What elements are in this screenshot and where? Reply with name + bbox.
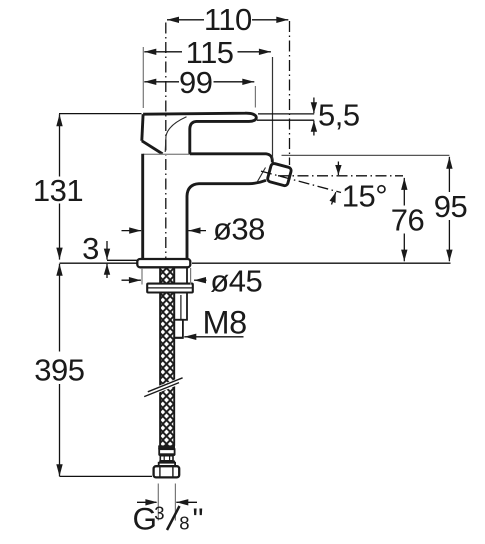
base flange [137, 259, 190, 267]
faucet body left slant [142, 141, 163, 154]
lever tip extension line [254, 86, 256, 108]
deck bottom line left [60, 262, 138, 264]
faucet body bottom grey line [143, 153, 189, 155]
svg-text:M8: M8 [203, 305, 247, 341]
svg-text:ø38: ø38 [213, 211, 265, 246]
svg-text:8: 8 [179, 513, 189, 534]
spout bottom line and column fillet [187, 180, 266, 258]
svg-text:3: 3 [82, 231, 99, 266]
395 bottom reference line [60, 475, 153, 477]
nozzle corner extension line [272, 57, 274, 160]
braided hose [160, 267, 174, 447]
dimension G3/8 [133, 499, 204, 536]
svg-text:76: 76 [391, 203, 424, 238]
faucet body top shoulder [190, 154, 272, 163]
dimension 3 [82, 231, 110, 278]
o45 extension ticks [141, 268, 143, 285]
faucet body left edge [142, 114, 143, 141]
dimension 5,5 [311, 97, 360, 135]
svg-text:95: 95 [434, 189, 467, 224]
svg-text:": " [193, 502, 204, 537]
svg-text:15°: 15° [342, 178, 387, 213]
fitting nipple [160, 456, 173, 461]
faucet lever outline [143, 113, 256, 154]
column left edge [141, 154, 144, 259]
nozzle crease thin diagonal [257, 168, 265, 182]
hose break mark [145, 377, 182, 398]
svg-text:3: 3 [154, 503, 164, 524]
nozzle axis horizontal dash-dot [278, 175, 403, 177]
dimension 15 deg [330, 162, 388, 214]
body left extension line [142, 47, 144, 108]
label M8 [184, 305, 246, 341]
dimension o45 [122, 263, 263, 298]
dimension 110 [167, 2, 288, 37]
svg-text:395: 395 [34, 353, 84, 388]
95 top reference line [282, 154, 450, 156]
hose end crimp band [158, 445, 175, 449]
M8 threaded rod [174, 267, 187, 320]
dimension 95 [434, 157, 467, 261]
dimension 131 [33, 114, 83, 259]
nozzle axis 15 deg dash-dot [261, 171, 341, 192]
faucet front thin S-curve [165, 117, 186, 152]
deck line right [192, 262, 451, 264]
extension line dash-dot right (110 to nozzle tip) [289, 21, 291, 165]
5,5 extension lines [258, 113, 314, 115]
dimension 115 [144, 35, 271, 70]
deck top line left [107, 259, 137, 261]
svg-text:ø45: ø45 [210, 263, 262, 298]
lever top extension line left [59, 113, 142, 115]
centerline faucet vertical axis [165, 21, 167, 258]
svg-text:5,5: 5,5 [318, 97, 360, 132]
dimension o38 [122, 211, 265, 246]
dimension 395 [34, 264, 84, 477]
spray nozzle [267, 163, 292, 187]
hose ferrule [159, 449, 174, 454]
dimension 76 [391, 178, 424, 261]
svg-text:110: 110 [204, 2, 252, 37]
svg-text:131: 131 [33, 173, 83, 208]
dimension 99 [144, 65, 254, 100]
svg-text:99: 99 [179, 65, 212, 100]
mounting washer [147, 284, 193, 293]
G3/8 hex nut [154, 466, 180, 477]
G3/8 extension lines [157, 484, 159, 521]
